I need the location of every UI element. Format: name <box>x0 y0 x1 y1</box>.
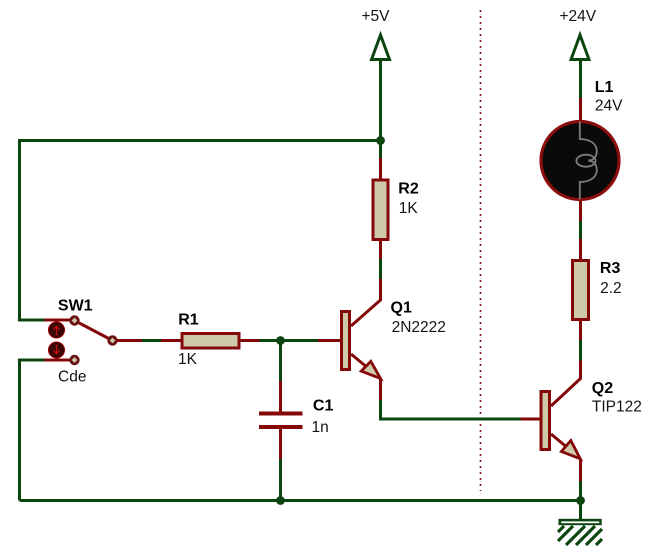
SW1 actuator button up <box>48 322 64 338</box>
transistor Q1 emitter arrow <box>361 361 380 378</box>
svg-text:L1: L1 <box>595 79 614 96</box>
transistor Q1 base bar <box>342 312 350 370</box>
wire +24V to L1 <box>579 60 582 98</box>
transistor Q2 emitter arrow <box>561 441 580 459</box>
Q1 emitter pin down <box>379 379 382 400</box>
resistor R3 <box>573 261 589 320</box>
node A junction dot <box>376 136 385 145</box>
Q2 base pin <box>521 418 542 421</box>
transistor Q2 emitter pin <box>551 434 575 454</box>
wire Q2 emitter to ground rail <box>579 481 582 501</box>
wire C1 to ground rail <box>279 459 282 500</box>
power +24V symbol <box>571 35 589 60</box>
SW1 pin top <box>45 319 71 322</box>
L1 pin bottom <box>579 200 582 222</box>
transistor Q2 collector pin <box>551 361 581 407</box>
R1 pin left <box>117 339 142 342</box>
Q1 base pin <box>318 339 340 342</box>
SW1 contact bottom <box>69 355 79 365</box>
wire R1 to node B <box>260 339 319 342</box>
SW1 contact top <box>69 315 79 325</box>
capacitor C1 <box>259 414 303 428</box>
wire R2 to Q1 collector <box>379 259 382 279</box>
svg-text:24V: 24V <box>595 98 623 115</box>
svg-text:Q1: Q1 <box>391 300 412 317</box>
wire SW1 pole to R1 <box>142 339 161 342</box>
svg-text:1K: 1K <box>178 351 198 368</box>
svg-text:R1: R1 <box>178 312 199 329</box>
svg-text:SW1: SW1 <box>58 298 93 315</box>
wire node D to ground <box>579 501 582 520</box>
resistor R2 <box>373 180 388 240</box>
svg-text:1n: 1n <box>312 419 329 436</box>
wire node B down to C1 <box>279 341 282 382</box>
transistor Q2 base bar <box>541 392 550 450</box>
wire bottom ground rail <box>20 499 581 502</box>
svg-text:+24V: +24V <box>560 8 597 25</box>
SW1 contact pole <box>107 335 117 345</box>
Q2 emitter pin down <box>579 459 582 481</box>
divider dotted line <box>480 10 482 491</box>
R3 pin bottom <box>579 320 582 340</box>
wire Q1 emitter to Q2 base <box>381 400 521 419</box>
wire +5V rail down to node A <box>379 60 382 159</box>
SW1 lever <box>75 321 113 341</box>
wire top horizontal rail <box>20 141 381 321</box>
power +5V symbol <box>372 35 390 60</box>
transistor Q1 emitter pin <box>351 354 377 376</box>
R2 pin bottom <box>379 240 382 260</box>
svg-text:Cde: Cde <box>58 369 86 386</box>
node C junction dot <box>276 496 285 505</box>
C1 pin top <box>279 381 282 412</box>
svg-text:Q2: Q2 <box>592 380 613 397</box>
svg-text:C1: C1 <box>313 398 334 415</box>
L1 pin top <box>579 98 582 122</box>
wire SW1 bottom contact to left rail <box>20 360 45 501</box>
wire L1 to R3 <box>579 221 582 239</box>
C1 pin bottom <box>279 429 282 459</box>
wire R3 to Q2 collector <box>579 340 582 361</box>
node D junction dot <box>576 496 585 505</box>
svg-text:TIP122: TIP122 <box>592 399 642 416</box>
node B junction dot <box>276 336 285 345</box>
lamp L1 <box>541 122 619 200</box>
SW1 actuator button down <box>48 342 64 358</box>
ground <box>558 519 602 545</box>
transistor Q1 collector pin <box>351 279 381 326</box>
R2 pin top <box>379 158 382 179</box>
svg-text:2N2222: 2N2222 <box>392 319 446 336</box>
svg-text:1K: 1K <box>399 200 419 217</box>
R3 pin top <box>579 239 582 260</box>
svg-text:2.2: 2.2 <box>600 280 622 297</box>
svg-text:R3: R3 <box>600 260 621 277</box>
R1 pin right <box>239 339 260 342</box>
svg-text:R2: R2 <box>398 181 419 198</box>
resistor R1 <box>182 334 239 349</box>
SW1 pin bottom <box>45 359 71 362</box>
svg-text:+5V: +5V <box>362 8 391 25</box>
